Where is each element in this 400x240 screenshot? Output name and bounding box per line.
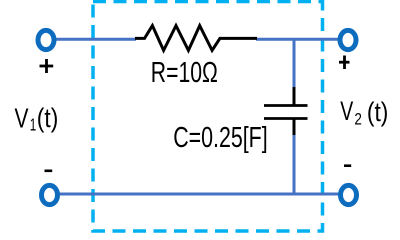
- svg-text:V: V: [15, 102, 29, 133]
- svg-text:(t): (t): [37, 103, 59, 133]
- svg-text:C=0.25[F]: C=0.25[F]: [173, 122, 268, 154]
- svg-text:(t): (t): [367, 97, 389, 127]
- svg-text:R=10Ω: R=10Ω: [151, 57, 218, 89]
- svg-text:1: 1: [30, 114, 37, 134]
- svg-text:2: 2: [354, 110, 362, 128]
- svg-text:V: V: [340, 96, 353, 126]
